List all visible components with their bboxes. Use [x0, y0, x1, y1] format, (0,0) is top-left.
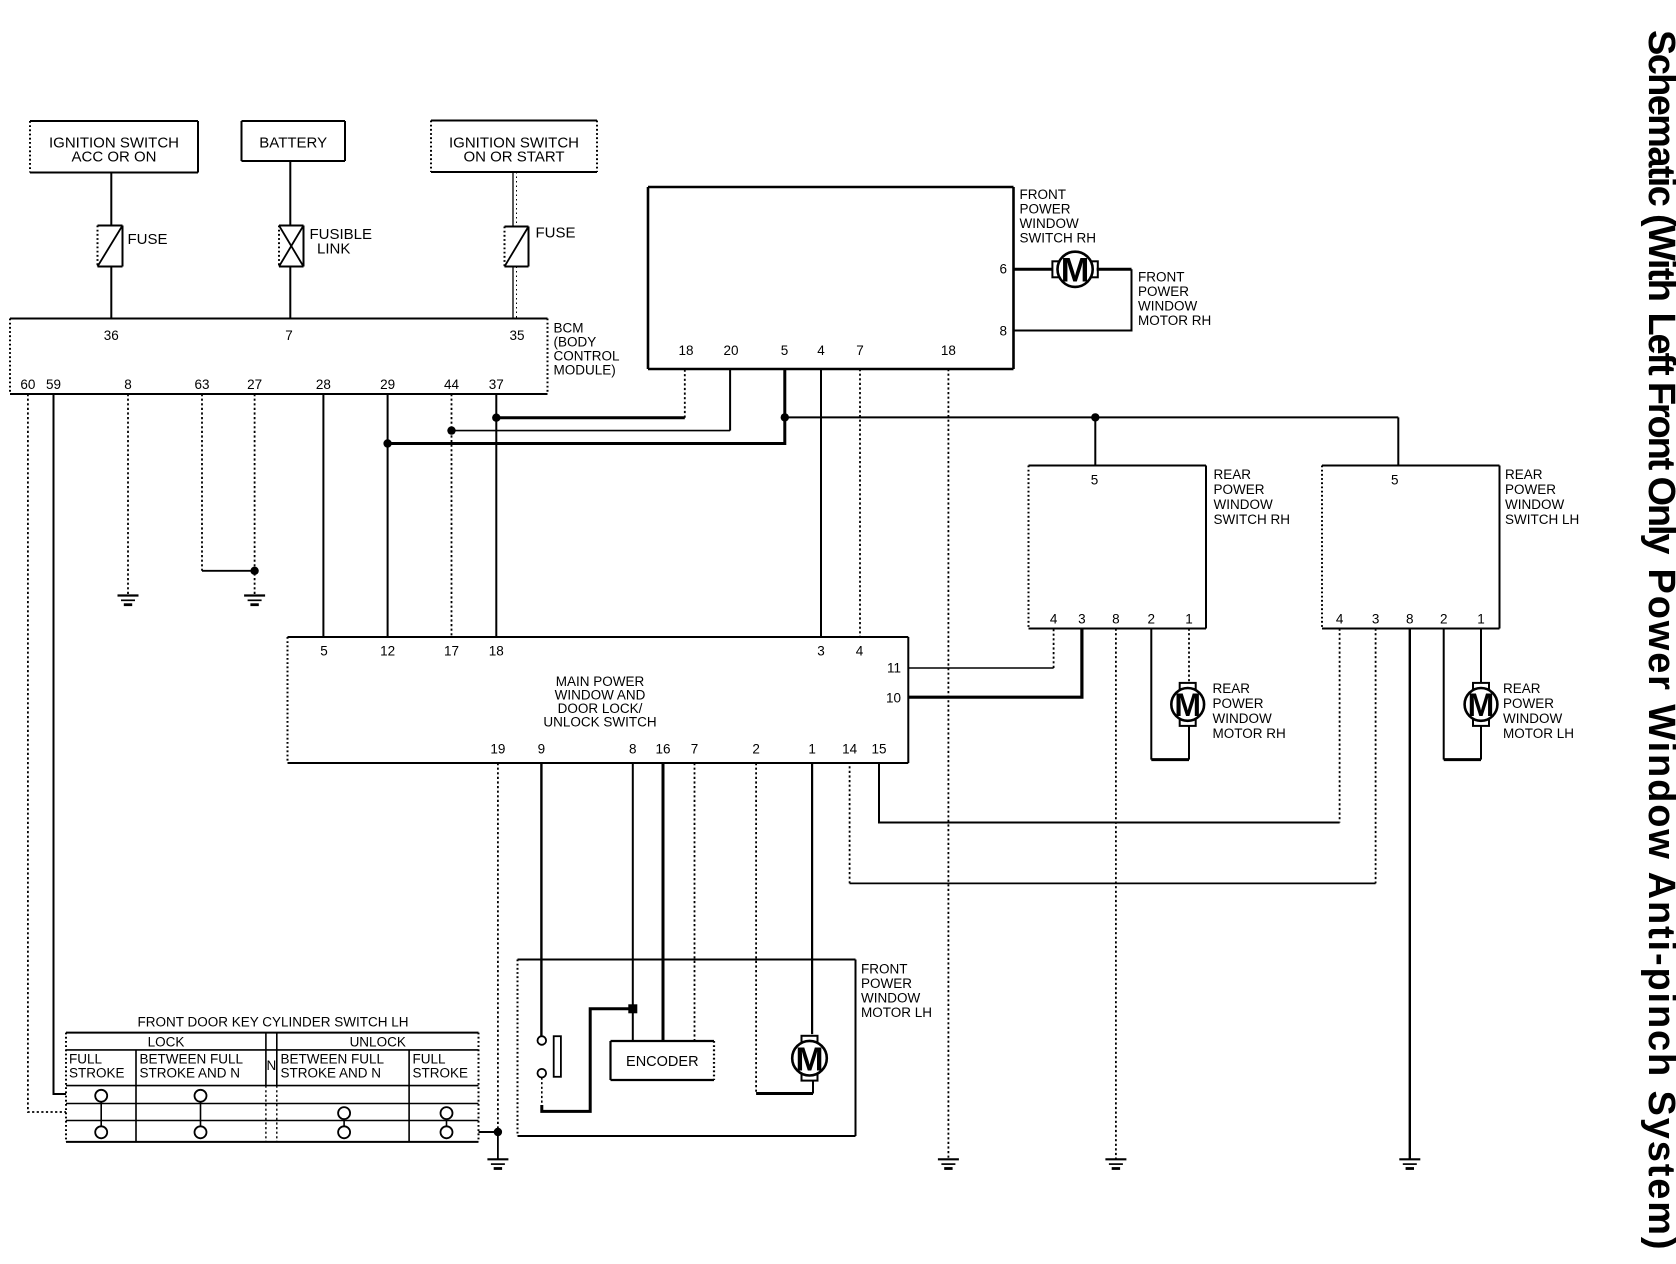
svg-text:8: 8	[629, 742, 637, 757]
junction of pin 63 and pin 27 wires	[250, 567, 258, 575]
key cylinder unlock between-full-stroke contact column	[338, 1107, 350, 1138]
wire fusible link to BCM pin 7	[289, 267, 291, 319]
svg-text:BCM: BCM	[554, 321, 584, 336]
front power window motor RH	[1052, 252, 1097, 290]
connector box: front power window motor LH	[518, 960, 856, 1137]
wire front switch RH pin 4 to main switch pin 3	[820, 369, 822, 637]
wire key cylinder switch to pin 19 ground wire	[479, 1131, 498, 1133]
svg-text:POWER: POWER	[1214, 482, 1265, 497]
svg-text:36: 36	[104, 328, 119, 343]
svg-text:SWITCH LH: SWITCH LH	[1505, 512, 1579, 527]
junction of pin 19 wire with key cylinder switch output	[494, 1128, 502, 1136]
svg-text:MOTOR LH: MOTOR LH	[1503, 726, 1574, 741]
svg-text:18: 18	[678, 343, 693, 358]
svg-text:WINDOW: WINDOW	[1503, 711, 1562, 726]
connector box: rear power window switch RH	[1029, 466, 1207, 629]
label BCM (BODY CONTROL MODULE)	[554, 321, 620, 378]
bus wire to rear power window switches pin 5	[785, 416, 1399, 418]
svg-text:7: 7	[691, 742, 699, 757]
svg-text:ON OR START: ON OR START	[463, 149, 564, 166]
svg-text:2: 2	[1148, 612, 1156, 627]
encoder box	[611, 1041, 715, 1080]
svg-text:5: 5	[1391, 473, 1399, 488]
svg-text:9: 9	[538, 742, 546, 757]
svg-text:5: 5	[1091, 473, 1099, 488]
label FUSIBLE LINK	[310, 226, 373, 258]
svg-text:18: 18	[489, 644, 504, 659]
junction square on pin 8 wire inside motor LH	[628, 1004, 637, 1013]
svg-text:BETWEEN FULL: BETWEEN FULL	[140, 1052, 244, 1067]
svg-text:3: 3	[1078, 612, 1086, 627]
svg-text:WINDOW: WINDOW	[1505, 497, 1564, 512]
svg-text:(BODY: (BODY	[554, 335, 597, 350]
wire BCM pin 44 to main switch pin 17	[451, 394, 453, 637]
svg-text:8: 8	[999, 324, 1007, 339]
svg-text:28: 28	[316, 377, 331, 392]
svg-text:POWER: POWER	[1213, 696, 1264, 711]
svg-text:15: 15	[871, 742, 886, 757]
svg-text:MODULE): MODULE)	[554, 363, 616, 378]
wire battery to fusible link	[289, 161, 291, 226]
svg-text:FRONT: FRONT	[1020, 187, 1067, 202]
svg-text:8: 8	[1406, 612, 1414, 627]
svg-text:59: 59	[46, 377, 61, 392]
ground for BCM pin 8	[118, 596, 139, 605]
svg-text:POWER: POWER	[1020, 202, 1071, 217]
svg-text:UNLOCK SWITCH: UNLOCK SWITCH	[543, 715, 656, 730]
vertical schematic title	[1640, 30, 1676, 1250]
svg-text:ACC OR ON: ACC OR ON	[71, 149, 156, 166]
fuse F3	[505, 227, 529, 267]
wire front switch RH pin 7 to main switch pin 4	[859, 369, 861, 637]
svg-text:FRONT: FRONT	[861, 962, 908, 977]
wire BCM pin 28 to main switch pin 5	[322, 394, 324, 637]
junction on pin 29 wire	[383, 439, 391, 447]
svg-text:11: 11	[887, 661, 901, 676]
svg-text:8: 8	[1112, 612, 1120, 627]
connector box: BCM body control module	[10, 319, 548, 395]
wire main switch pin 19 to ground	[497, 763, 499, 1159]
wire rear switch LH pin 8 to ground	[1409, 629, 1411, 1160]
svg-text:8: 8	[124, 377, 132, 392]
ground for rear switch RH pin 8	[1105, 1159, 1126, 1168]
wire main switch pin 1 to front motor LH high side	[811, 763, 813, 1034]
front power window motor LH motor symbol	[792, 1036, 827, 1081]
svg-text:Left Front Only: Left Front Only	[1640, 313, 1676, 555]
svg-text:M: M	[795, 1040, 823, 1078]
ground for main switch pin 19	[487, 1159, 508, 1168]
svg-text:29: 29	[380, 377, 395, 392]
wire rear switch LH pin 3 to main switch pin 14	[850, 629, 1376, 884]
svg-text:4: 4	[1336, 612, 1344, 627]
wire rear switch LH pin 2 to rear motor LH low side	[1444, 629, 1481, 760]
svg-text:2: 2	[1440, 612, 1448, 627]
wire ignition ON/START to fuse F3	[513, 172, 517, 227]
svg-text:5: 5	[320, 644, 328, 659]
svg-text:6: 6	[999, 262, 1007, 277]
svg-text:UNLOCK: UNLOCK	[350, 1035, 406, 1050]
wire rear switch RH pin 1 to rear motor RH high side	[1188, 629, 1190, 684]
label REAR POWER WINDOW MOTOR RH	[1213, 681, 1286, 741]
wire main switch pin 11 to rear switch RH pin 4	[908, 629, 1053, 669]
limit switch contact upper in front motor LH	[538, 1036, 547, 1045]
key cylinder unlock full-stroke contact column	[441, 1107, 453, 1138]
wire front switch RH pin 6 to front window motor RH	[1014, 268, 1054, 271]
svg-text:7: 7	[856, 343, 864, 358]
svg-text:FUSE: FUSE	[536, 225, 576, 242]
svg-text:60: 60	[20, 377, 35, 392]
wire main switch pin 7 to encoder	[694, 763, 696, 1041]
wire ignition ACC to fuse F1	[110, 173, 112, 226]
fusible link FL	[279, 226, 304, 267]
connector box: battery	[242, 121, 346, 161]
wire BCM pin 44 branch to front switch RH pin 20	[452, 430, 731, 432]
wire BCM pin 37 to main switch pin 18	[495, 394, 497, 637]
wire front switch RH pin 18 to ground	[947, 369, 949, 1159]
wire main switch pin 8 to encoder	[632, 763, 634, 1041]
label REAR POWER WINDOW MOTOR LH	[1503, 681, 1574, 741]
ground for BCM pin 27	[244, 596, 265, 605]
wire BCM pin 37 branch to front switch RH pin 18	[496, 416, 685, 419]
svg-text:STROKE: STROKE	[69, 1066, 125, 1081]
svg-text:SWITCH RH: SWITCH RH	[1020, 231, 1097, 246]
svg-text:1: 1	[1185, 612, 1193, 627]
svg-text:2: 2	[752, 742, 760, 757]
label REAR POWER WINDOW SWITCH LH	[1505, 467, 1579, 527]
label MAIN POWER WINDOW AND DOOR LOCK/UNLOCK SWITCH	[543, 674, 656, 730]
key cylinder lock full-stroke contact column	[95, 1090, 107, 1139]
svg-text:1: 1	[1477, 612, 1485, 627]
svg-text:POWER: POWER	[861, 976, 912, 991]
wire rear switch LH pin 1 to rear motor LH high side	[1480, 629, 1482, 684]
svg-text:Schematic (With: Schematic (With	[1640, 30, 1676, 302]
svg-text:3: 3	[817, 644, 825, 659]
svg-text:FRONT: FRONT	[1138, 270, 1185, 285]
wire limit switch to encoder feed junction	[542, 1009, 633, 1112]
svg-text:STROKE AND N: STROKE AND N	[281, 1066, 382, 1081]
svg-text:44: 44	[444, 377, 460, 392]
svg-text:POWER: POWER	[1138, 284, 1189, 299]
wire bus down to rear power window switch LH pin 5	[1397, 417, 1399, 465]
svg-text:4: 4	[817, 343, 825, 358]
svg-text:REAR: REAR	[1213, 681, 1251, 696]
svg-text:BETWEEN FULL: BETWEEN FULL	[281, 1052, 385, 1067]
svg-text:17: 17	[444, 644, 459, 659]
wire bus down to rear power window switch RH pin 5	[1094, 417, 1096, 465]
label FRONT POWER WINDOW SWITCH RH	[1020, 187, 1097, 246]
connector box: front power window switch RH	[648, 187, 1014, 369]
wire BCM pin 60 to key cylinder switch lock row	[28, 394, 66, 1112]
connector box: ignition switch ACC or ON	[30, 121, 198, 173]
junction on front switch RH pin 5 wire with window switch supply bus	[781, 413, 789, 421]
svg-text:Power Window Anti-pinch System: Power Window Anti-pinch System)	[1640, 569, 1676, 1250]
svg-text:REAR: REAR	[1505, 467, 1543, 482]
svg-text:3: 3	[1372, 612, 1380, 627]
wire BCM pin 29 branch to front power window switch RH pin 5	[388, 369, 785, 444]
svg-text:SWITCH RH: SWITCH RH	[1214, 512, 1291, 527]
svg-text:POWER: POWER	[1503, 696, 1554, 711]
svg-text:BATTERY: BATTERY	[259, 135, 327, 152]
svg-text:M: M	[1468, 687, 1495, 723]
svg-text:MOTOR LH: MOTOR LH	[861, 1005, 932, 1020]
svg-text:7: 7	[285, 328, 293, 343]
wire fuse F1 to BCM pin 36	[110, 267, 112, 319]
wire BCM pin 27 to ground	[254, 394, 256, 596]
svg-text:16: 16	[655, 742, 670, 757]
connector box: main power window and door lock/unlock switch	[288, 637, 909, 763]
svg-text:63: 63	[194, 377, 209, 392]
label REAR POWER WINDOW SWITCH RH	[1214, 467, 1291, 527]
svg-text:M: M	[1061, 252, 1090, 290]
connector box: ignition switch ON or START	[431, 121, 597, 173]
junction on pin 44 wire	[447, 426, 455, 434]
svg-text:WINDOW: WINDOW	[1214, 497, 1273, 512]
svg-text:STROKE AND N: STROKE AND N	[140, 1066, 241, 1081]
svg-text:WINDOW: WINDOW	[1020, 216, 1079, 231]
wire main switch pin 10 to rear switch RH pin 3	[908, 629, 1082, 698]
ground for front switch RH pin 18	[938, 1159, 959, 1168]
svg-text:5: 5	[781, 343, 789, 358]
svg-text:MOTOR RH: MOTOR RH	[1138, 313, 1211, 328]
connector box: rear power window switch LH	[1322, 466, 1500, 629]
wire BCM pin 63 joining pin 27 wire	[202, 394, 255, 571]
svg-text:FULL: FULL	[413, 1052, 447, 1067]
junction on pin 37 wire	[492, 414, 500, 422]
svg-text:STROKE: STROKE	[413, 1066, 469, 1081]
wire fuse F3 to BCM pin 35	[513, 267, 517, 319]
wire main switch pin 2 to front motor LH low side	[756, 763, 813, 1094]
limit switch actuator bar in front motor LH	[554, 1036, 561, 1077]
svg-text:N: N	[267, 1058, 277, 1073]
svg-text:19: 19	[490, 742, 505, 757]
rear power window motor LH	[1465, 683, 1498, 726]
wire rear switch RH pin 2 to rear motor RH low side	[1151, 629, 1189, 760]
svg-text:M: M	[1174, 687, 1201, 723]
limit switch contact lower in front motor LH	[538, 1069, 547, 1078]
svg-text:35: 35	[509, 328, 524, 343]
svg-text:WINDOW: WINDOW	[1138, 299, 1197, 314]
wire BCM pin 59 to key cylinder switch lock row	[54, 394, 67, 1094]
svg-text:FULL: FULL	[69, 1052, 103, 1067]
svg-text:10: 10	[886, 691, 901, 706]
fuse F1	[98, 226, 123, 267]
svg-text:FRONT DOOR KEY CYLINDER SWITCH: FRONT DOOR KEY CYLINDER SWITCH LH	[137, 1015, 408, 1030]
wire BCM pin 8 to ground	[127, 394, 129, 596]
svg-text:MOTOR RH: MOTOR RH	[1213, 726, 1286, 741]
svg-text:POWER: POWER	[1505, 482, 1556, 497]
key cylinder lock between-full-stroke contact column	[195, 1090, 207, 1139]
svg-text:27: 27	[247, 377, 262, 392]
svg-text:REAR: REAR	[1214, 467, 1252, 482]
wire front window motor RH back to front switch RH pin 8	[1014, 269, 1132, 330]
wire rear switch LH pin 4 to main switch pin 15	[879, 629, 1340, 823]
svg-text:4: 4	[856, 644, 864, 659]
wire rear switch RH pin 8 to ground	[1115, 629, 1117, 1160]
label FRONT POWER WINDOW MOTOR RH	[1138, 270, 1211, 329]
svg-text:18: 18	[941, 343, 956, 358]
wire main switch pin 16 to encoder	[662, 763, 665, 1041]
svg-text:LOCK: LOCK	[148, 1035, 185, 1050]
svg-text:1: 1	[808, 742, 816, 757]
label FRONT POWER WINDOW MOTOR LH	[861, 962, 932, 1021]
svg-text:FUSE: FUSE	[128, 231, 168, 248]
rear power window motor RH	[1171, 683, 1204, 726]
wire main switch pin 9 to front motor LH switch contact	[540, 763, 542, 1036]
svg-text:LINK: LINK	[317, 241, 350, 258]
junction bus to rear switch RH pin 5	[1091, 413, 1099, 421]
svg-text:WINDOW: WINDOW	[861, 991, 920, 1006]
wire BCM pin 29 to main switch pin 12	[387, 394, 389, 637]
svg-text:20: 20	[723, 343, 738, 358]
ground for rear switch LH pin 8	[1399, 1159, 1420, 1168]
svg-text:ENCODER: ENCODER	[626, 1054, 699, 1070]
svg-text:4: 4	[1050, 612, 1058, 627]
svg-text:37: 37	[489, 377, 504, 392]
svg-text:CONTROL: CONTROL	[554, 349, 620, 364]
svg-text:REAR: REAR	[1503, 681, 1541, 696]
svg-text:14: 14	[842, 742, 858, 757]
svg-text:WINDOW: WINDOW	[1213, 711, 1272, 726]
svg-text:12: 12	[380, 644, 395, 659]
